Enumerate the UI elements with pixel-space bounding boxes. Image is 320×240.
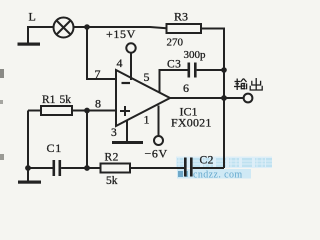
ground (bottom left) <box>18 181 41 184</box>
lamp L <box>54 18 74 38</box>
ground (pin 3) <box>112 141 143 144</box>
svg-text:cndzz. com: cndzz. com <box>193 170 243 181</box>
svg-text:6: 6 <box>183 81 189 95</box>
svg-text:C3: C3 <box>167 59 181 71</box>
wire +15V to pin 4 <box>130 53 132 80</box>
wire junction down to pin 7 <box>87 27 116 79</box>
wire R3 to right rail down <box>201 29 224 169</box>
svg-text:5k: 5k <box>60 94 72 106</box>
plus input sign <box>120 106 130 116</box>
wire junction vertical pin8-C1 <box>86 111 88 169</box>
terminal output <box>244 94 253 103</box>
glyph 输 <box>235 81 241 83</box>
svg-text:3: 3 <box>111 127 117 139</box>
svg-text:7: 7 <box>95 67 101 81</box>
svg-text:R1: R1 <box>42 94 56 106</box>
wire to output terminal <box>224 97 244 99</box>
svg-text:C1: C1 <box>47 141 63 155</box>
node C3 on rail <box>221 67 227 73</box>
pin 1 stub and terminal <box>158 106 160 137</box>
pin 3 stub <box>126 120 128 141</box>
svg-text:8: 8 <box>95 97 101 111</box>
resistor R1 <box>28 94 87 115</box>
svg-text:C2: C2 <box>200 155 214 167</box>
wire lamp-left to ground <box>28 27 54 43</box>
svg-text:5: 5 <box>144 70 150 84</box>
svg-text:270: 270 <box>167 37 184 49</box>
resistor R3 <box>167 10 202 49</box>
watermark line2 logo blocks <box>178 171 183 177</box>
wire pin 6 output <box>170 97 224 99</box>
svg-text:5k: 5k <box>106 175 118 187</box>
wire lamp to R3 <box>74 27 167 28</box>
svg-text:1: 1 <box>144 113 150 127</box>
capacitor C2 <box>184 155 224 177</box>
svg-text:+15V: +15V <box>106 27 136 41</box>
watermark line2 background <box>177 169 251 179</box>
node pin8 junction <box>84 108 90 114</box>
watermark line1 background <box>176 157 272 169</box>
svg-text:R2: R2 <box>105 152 119 164</box>
svg-text:300p: 300p <box>184 49 207 61</box>
wire pin 8 <box>87 110 116 112</box>
capacitor C1 <box>28 141 87 176</box>
svg-text:L: L <box>29 10 36 24</box>
svg-text:4: 4 <box>117 56 123 70</box>
svg-text:−6V: −6V <box>145 147 168 161</box>
node output rail <box>221 95 227 101</box>
ground (lamp branch) <box>18 43 41 46</box>
terminal +15V <box>126 43 135 52</box>
minus input sign <box>122 82 131 84</box>
op-amp IC1 triangle <box>116 70 170 126</box>
capacitor C3 <box>160 49 225 92</box>
node C1/R2 junction <box>84 165 90 171</box>
label 输出 (output) drawn as vector strokes <box>234 78 262 90</box>
resistor R2 <box>87 152 184 188</box>
watermark line1 character blocks <box>177 158 272 167</box>
svg-text:R3: R3 <box>174 10 188 24</box>
node C1 left <box>25 165 31 171</box>
node top junction <box>84 24 90 30</box>
scan artifact marks <box>0 69 4 78</box>
glyph 出 <box>255 78 257 90</box>
wire left branch vertical <box>27 111 29 182</box>
svg-text:FX0021: FX0021 <box>171 116 212 130</box>
